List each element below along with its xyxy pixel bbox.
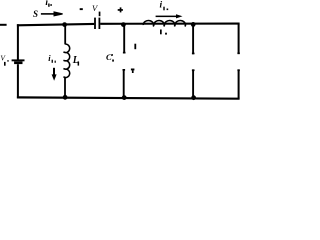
C1 gap end ticks: [123, 52, 126, 54]
node dot A (top of L1): [62, 22, 67, 27]
battery V_d short plate: [14, 61, 22, 64]
wire C1 branch upper: [123, 25, 125, 53]
wire output branch lower: [192, 69, 194, 97]
node dot C (top of output branch): [191, 22, 196, 27]
small bar mark right of C1 top: [134, 44, 136, 50]
current arrow iL1 (down): [53, 68, 55, 76]
wire C1 branch lower: [123, 69, 125, 98]
label i_s subscript marks: [48, 4, 49, 7]
label L_o below coil: [160, 30, 162, 35]
label V_d subscript marks: [4, 62, 6, 66]
wire right edge lower: [238, 69, 240, 98]
wire right edge upper: [238, 24, 240, 54]
inductor L1 vertical coil: [64, 44, 70, 77]
svg-text:L: L: [72, 55, 79, 66]
wire L1 branch lower lead: [64, 78, 66, 97]
svg-text:C: C: [106, 52, 112, 62]
battery V_d long plate: [12, 59, 25, 61]
inductor Lo horizontal coil: [143, 21, 185, 27]
capacitor plate left (series cap V1): [94, 18, 96, 29]
wire bottom: [17, 97, 240, 98]
label i_L1 subscript marks: [52, 60, 53, 63]
T-shaped mark near C1 bottom: [131, 69, 135, 71]
node dot bottom of L1: [63, 95, 68, 100]
label i_Lo subscript marks: [163, 7, 164, 11]
minus sign of V1: [80, 8, 83, 10]
wire top left section: [17, 24, 94, 25]
switch S arrow: [41, 13, 56, 15]
wire left edge lower: [17, 64, 19, 98]
current arrow iLo (right): [156, 16, 177, 18]
svg-text:i: i: [160, 1, 163, 11]
label V1 subscript: [99, 12, 101, 17]
label L1 subscript: [78, 62, 80, 66]
node dot bottom of C1: [122, 95, 127, 100]
wire L1 branch upper lead: [64, 25, 66, 44]
right edge gap end ticks: [237, 52, 239, 54]
plus sign of V1: [118, 9, 123, 11]
node dot bottom of output branch: [191, 95, 196, 100]
svg-text:V: V: [92, 3, 99, 13]
svg-text:i: i: [48, 53, 51, 63]
svg-text:i: i: [45, 0, 48, 8]
label C1 subscript dots: [111, 54, 113, 56]
output branch gap end ticks: [192, 53, 195, 55]
wire stub far left (cropped continuation): [0, 24, 7, 26]
svg-text:V: V: [0, 53, 6, 62]
node dot B (top of C1): [121, 22, 126, 27]
wire output branch upper: [192, 25, 194, 54]
capacitor plate right (series cap V1): [99, 18, 101, 29]
svg-text:S: S: [33, 9, 38, 19]
wire left edge upper: [17, 24, 19, 59]
wire top right section: [100, 23, 239, 25]
